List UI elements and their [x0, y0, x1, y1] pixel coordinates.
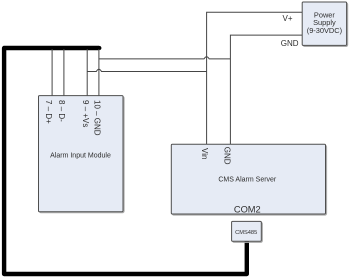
alarm input module U1 — [40, 97, 125, 213]
wire: RS-485 thick cable from alarm module pins around left/bottom to CMS485 — [4, 48, 247, 274]
svg-text:COM2: COM2 — [234, 205, 261, 215]
wire: pin 10 GND vertical — [98, 49, 100, 96]
power supply U-PSU — [303, 3, 347, 46]
wire: V+ net horizontal from pin9, hop over pin10 wire, to V+ vertical — [87, 69, 206, 71]
svg-text:9 – +Vs: 9 – +Vs — [81, 100, 90, 127]
svg-text:GND: GND — [281, 39, 299, 48]
CMS alarm server U2 — [172, 145, 326, 215]
svg-text:GND: GND — [223, 147, 232, 165]
svg-text:V+: V+ — [282, 14, 292, 23]
wire: pin 7 D+ vertical — [51, 49, 53, 96]
wire: GND net vertical and horizontal into power supply — [230, 35, 302, 144]
svg-text:7 – D+: 7 – D+ — [44, 100, 53, 124]
wire: pin 9 +Vs vertical — [86, 49, 88, 96]
svg-text:CMS Alarm Server: CMS Alarm Server — [218, 177, 277, 184]
wire: rounded end cap of thick cable — [97, 46, 101, 50]
CMS485 converter U3 — [233, 222, 263, 242]
wire: V+ net vertical and top horizontal into power supply — [207, 12, 302, 144]
svg-text:8 – D-: 8 – D- — [57, 100, 66, 122]
svg-text:Alarm Input Module: Alarm Input Module — [50, 153, 111, 160]
svg-text:10 – GND: 10 – GND — [93, 100, 102, 136]
wire: GND net horizontal from pin10 to GND vertical, hop over V+ wire — [99, 57, 231, 59]
svg-text:(9-30VDC): (9-30VDC) — [307, 26, 342, 35]
wire: pin 8 D- vertical — [63, 49, 65, 96]
svg-text:Vin: Vin — [200, 148, 209, 159]
svg-text:CMS485: CMS485 — [235, 230, 257, 236]
